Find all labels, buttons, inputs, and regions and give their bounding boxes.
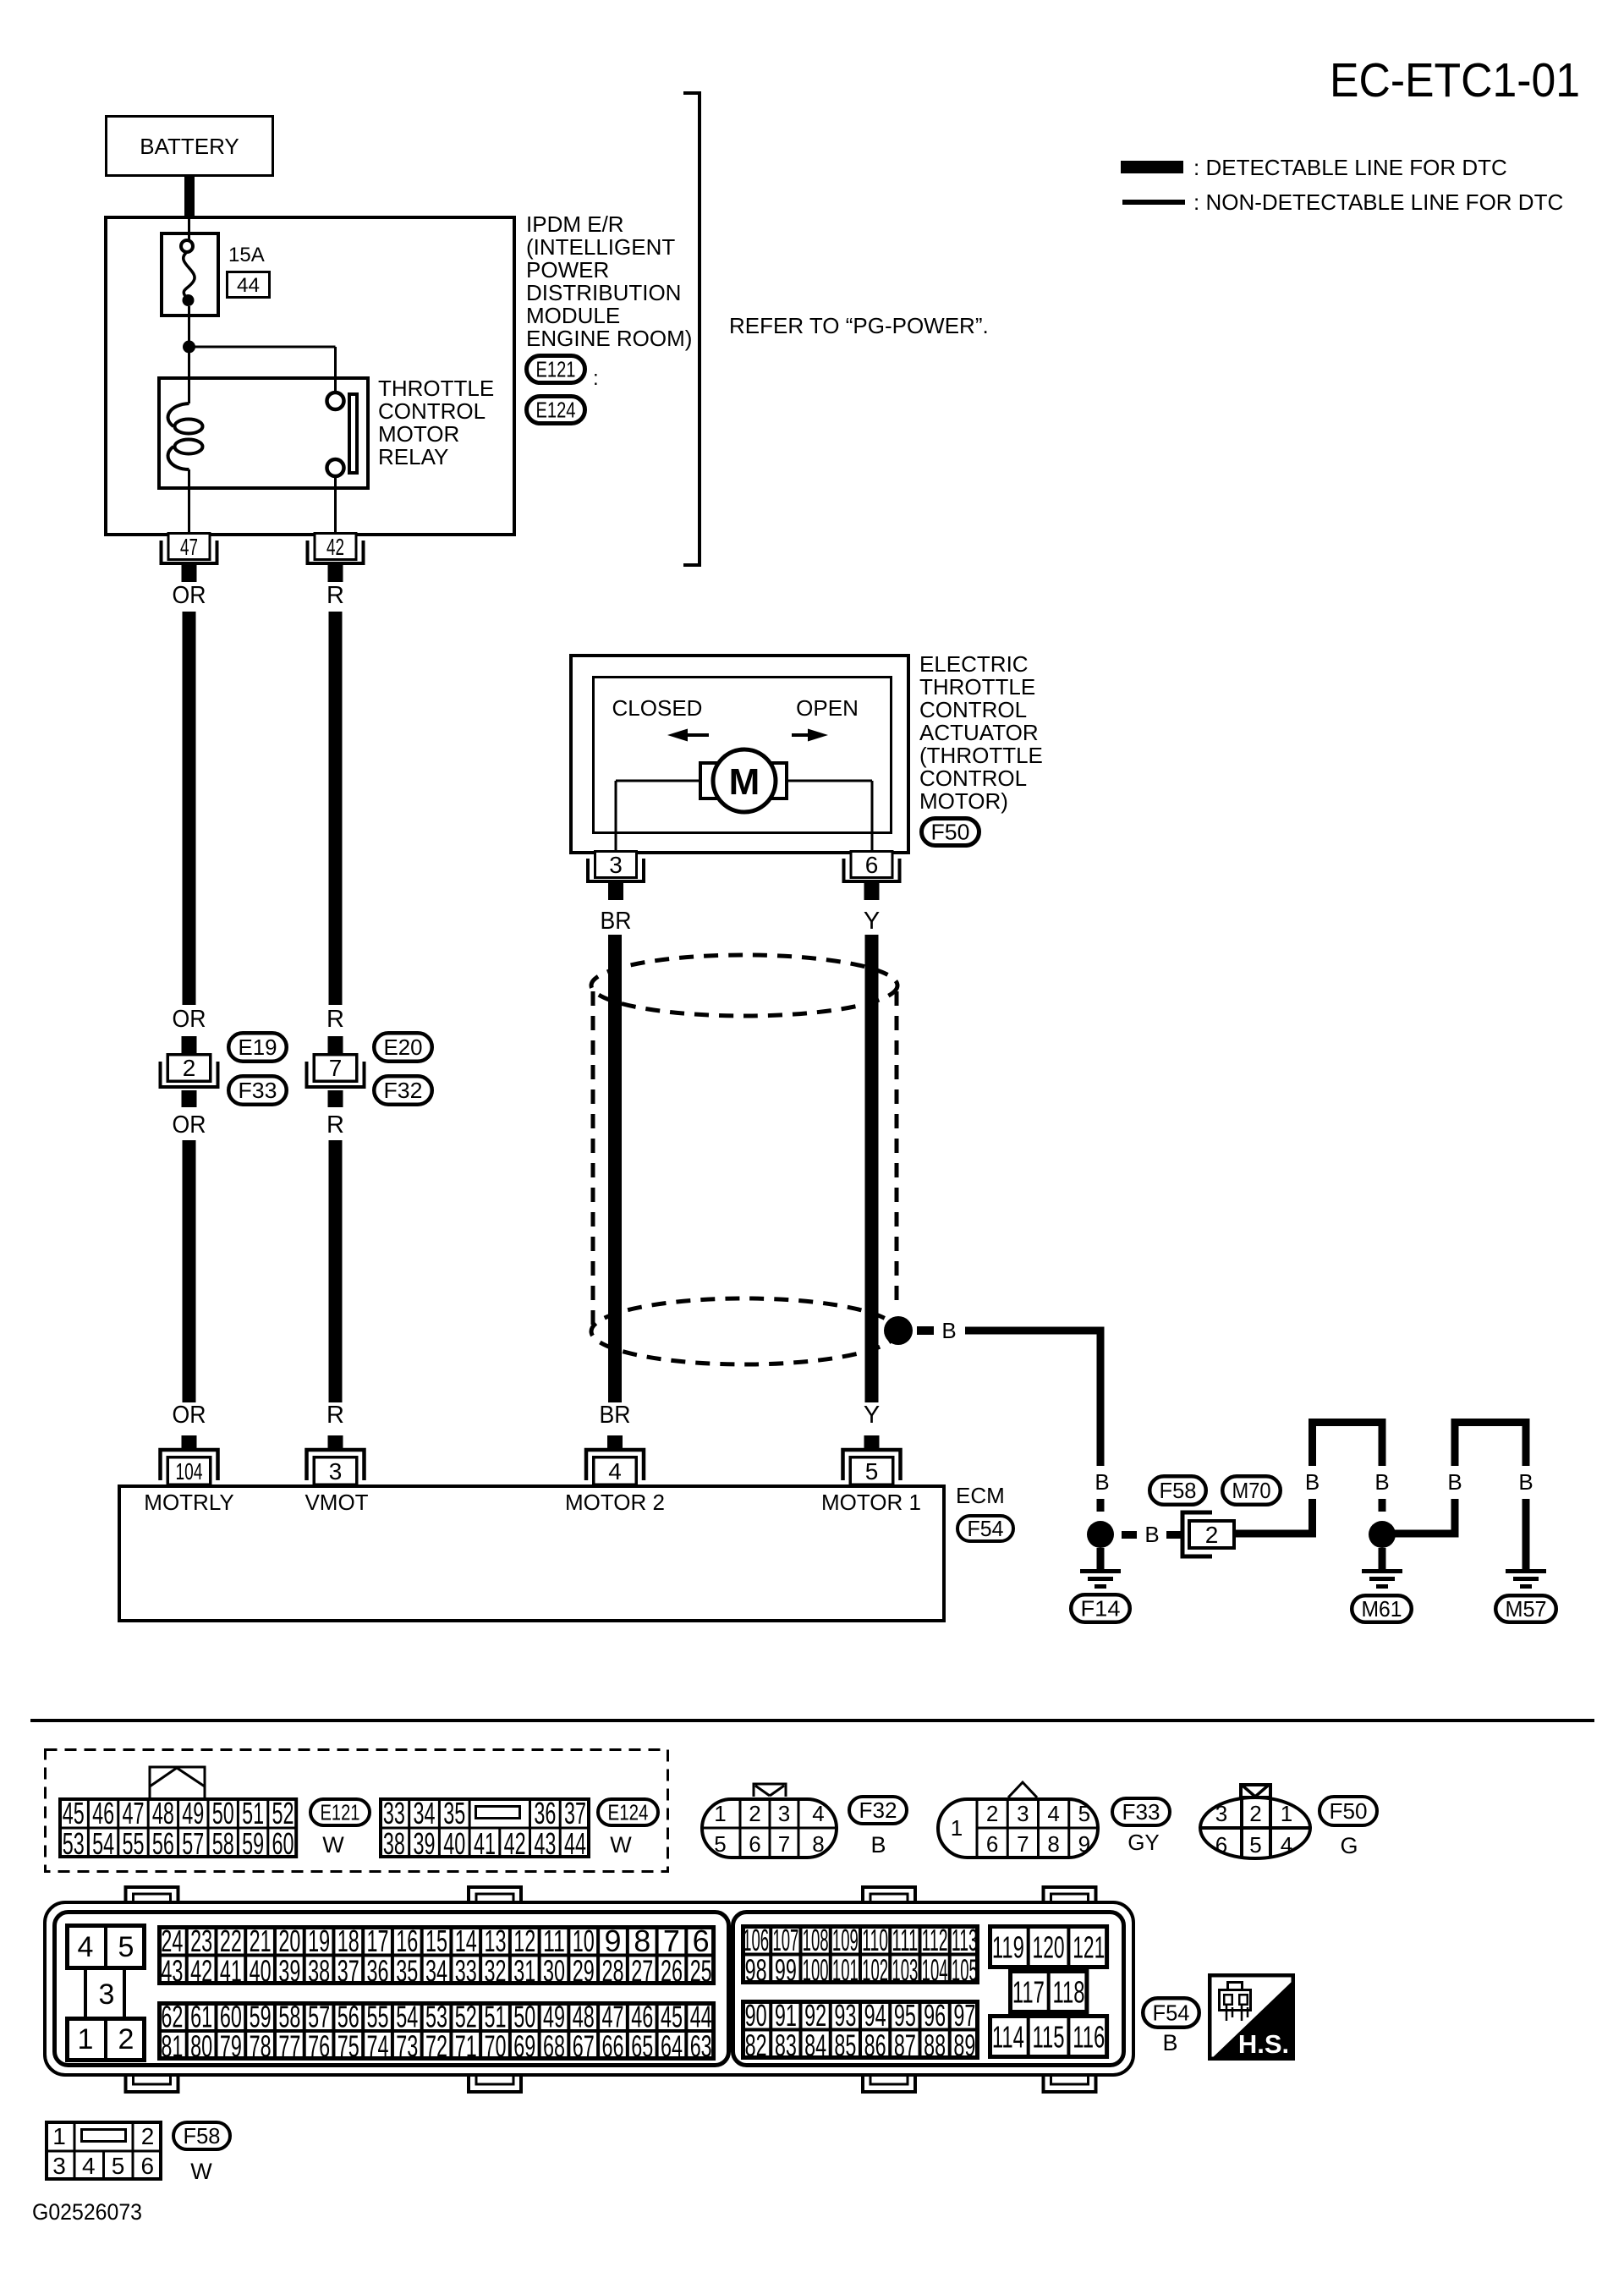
svg-text:F50: F50	[931, 820, 970, 845]
svg-text:44: 44	[564, 1826, 586, 1861]
svg-text:W: W	[322, 1832, 344, 1858]
svg-text:3: 3	[778, 1801, 790, 1826]
svg-text:R: R	[326, 1006, 344, 1033]
svg-text:63: 63	[690, 2029, 712, 2064]
svg-text:33: 33	[383, 1796, 405, 1830]
svg-text:F54: F54	[1153, 2000, 1190, 2026]
svg-text:26: 26	[661, 1953, 683, 1988]
svg-text:2: 2	[183, 1055, 196, 1081]
svg-text:44: 44	[237, 274, 260, 297]
svg-text:35: 35	[443, 1796, 465, 1830]
svg-text:85: 85	[834, 2028, 856, 2062]
svg-text:47: 47	[180, 534, 198, 560]
svg-text:83: 83	[775, 2028, 797, 2062]
svg-text:30: 30	[543, 1953, 565, 1988]
svg-text:74: 74	[367, 2029, 389, 2064]
svg-text:EC-ETC1-01: EC-ETC1-01	[1330, 53, 1580, 107]
svg-text:1: 1	[78, 2023, 94, 2055]
svg-text:8: 8	[1047, 1831, 1059, 1857]
svg-text:35: 35	[396, 1953, 418, 1988]
svg-text:MOTOR): MOTOR)	[919, 788, 1008, 814]
svg-text:M61: M61	[1362, 1596, 1402, 1622]
svg-text:81: 81	[161, 2029, 183, 2064]
svg-text:15A: 15A	[228, 244, 265, 266]
svg-text:37: 37	[337, 1953, 359, 1988]
svg-text:36: 36	[534, 1796, 556, 1830]
svg-text:E19: E19	[239, 1034, 277, 1060]
svg-text:2: 2	[1249, 1801, 1261, 1826]
svg-text:OR: OR	[173, 1402, 206, 1429]
svg-text:R: R	[326, 1111, 344, 1139]
svg-text:38: 38	[308, 1953, 330, 1988]
svg-text:7: 7	[1017, 1831, 1029, 1857]
svg-text:F58: F58	[184, 2123, 221, 2149]
svg-text:B: B	[1095, 1469, 1109, 1495]
svg-text:58: 58	[212, 1826, 234, 1861]
svg-text:OR: OR	[173, 582, 206, 609]
svg-text:55: 55	[123, 1826, 145, 1861]
svg-text:42: 42	[504, 1826, 526, 1861]
svg-text:ECM: ECM	[956, 1483, 1005, 1508]
svg-text:39: 39	[278, 1953, 300, 1988]
svg-text:38: 38	[383, 1826, 405, 1861]
svg-text:45: 45	[63, 1796, 85, 1830]
svg-text:78: 78	[250, 2029, 272, 2064]
svg-text:56: 56	[152, 1826, 174, 1861]
svg-text:2: 2	[141, 2123, 155, 2149]
svg-text:Y: Y	[864, 1402, 880, 1429]
svg-text:34: 34	[425, 1953, 447, 1988]
svg-text:8: 8	[812, 1831, 824, 1857]
svg-text:: DETECTABLE LINE FOR DTC: : DETECTABLE LINE FOR DTC	[1193, 155, 1507, 180]
svg-text:G: G	[1340, 1833, 1358, 1858]
svg-text:BR: BR	[601, 908, 632, 935]
svg-text:(THROTTLE: (THROTTLE	[919, 743, 1043, 768]
svg-text:CONTROL: CONTROL	[919, 697, 1027, 722]
svg-text:103: 103	[892, 1952, 918, 1987]
svg-text:66: 66	[601, 2029, 623, 2064]
svg-text:4: 4	[1281, 1832, 1292, 1858]
svg-text:89: 89	[953, 2028, 975, 2062]
svg-text:40: 40	[250, 1953, 272, 1988]
svg-text:6: 6	[1215, 1832, 1227, 1858]
svg-text:7: 7	[778, 1831, 790, 1857]
svg-text:102: 102	[862, 1952, 888, 1987]
svg-text:114: 114	[992, 2020, 1024, 2055]
svg-text:48: 48	[152, 1796, 174, 1830]
svg-text:5: 5	[1249, 1832, 1261, 1858]
svg-text:3: 3	[329, 1458, 343, 1484]
svg-text:117: 117	[1012, 1975, 1045, 2010]
svg-text:F50: F50	[1330, 1798, 1368, 1824]
svg-text:79: 79	[220, 2029, 242, 2064]
svg-text:1: 1	[951, 1815, 963, 1841]
svg-text:IPDM E/R: IPDM E/R	[526, 211, 624, 237]
svg-text:GY: GY	[1127, 1830, 1160, 1855]
svg-text:59: 59	[242, 1826, 264, 1861]
svg-text:116: 116	[1073, 2020, 1105, 2055]
svg-text:7: 7	[329, 1055, 343, 1081]
svg-text:6: 6	[986, 1831, 998, 1857]
svg-text:5: 5	[714, 1831, 726, 1857]
svg-text:F33: F33	[1122, 1799, 1160, 1825]
svg-text:41: 41	[220, 1953, 242, 1988]
svg-text:2: 2	[986, 1801, 998, 1826]
svg-text:50: 50	[212, 1796, 234, 1830]
svg-text:MOTOR 1: MOTOR 1	[821, 1490, 921, 1515]
svg-text:68: 68	[543, 2029, 565, 2064]
svg-text:1: 1	[52, 2123, 66, 2149]
svg-text:3: 3	[1215, 1801, 1227, 1826]
svg-text:5: 5	[865, 1458, 879, 1484]
svg-text:41: 41	[474, 1826, 496, 1861]
svg-text:B: B	[1162, 2030, 1177, 2055]
svg-text:B: B	[1447, 1469, 1462, 1495]
svg-text:64: 64	[661, 2029, 683, 2064]
svg-text:OR: OR	[173, 1006, 206, 1033]
svg-text:70: 70	[485, 2029, 507, 2064]
svg-text:OPEN: OPEN	[796, 695, 859, 721]
svg-text:57: 57	[182, 1826, 204, 1861]
svg-text:119: 119	[992, 1930, 1024, 1965]
svg-text:80: 80	[190, 2029, 212, 2064]
svg-text:F58: F58	[1160, 1478, 1197, 1503]
svg-text:ACTUATOR: ACTUATOR	[919, 720, 1039, 745]
svg-text:39: 39	[414, 1826, 436, 1861]
svg-text:101: 101	[832, 1952, 859, 1987]
svg-text:42: 42	[190, 1953, 212, 1988]
svg-text:71: 71	[455, 2029, 477, 2064]
svg-text:F32: F32	[859, 1797, 897, 1823]
svg-text:32: 32	[485, 1953, 507, 1988]
svg-text:6: 6	[140, 2153, 154, 2179]
svg-text:CLOSED: CLOSED	[612, 695, 703, 721]
svg-text:M57: M57	[1506, 1596, 1547, 1622]
svg-text:46: 46	[92, 1796, 114, 1830]
svg-text:115: 115	[1033, 2020, 1065, 2055]
svg-text:B: B	[1305, 1469, 1319, 1495]
svg-text:40: 40	[443, 1826, 465, 1861]
svg-text:MOTRLY: MOTRLY	[144, 1490, 233, 1515]
svg-text:37: 37	[564, 1796, 586, 1830]
svg-text:4: 4	[82, 2153, 96, 2179]
svg-text:M: M	[729, 761, 760, 803]
svg-text:1: 1	[714, 1801, 726, 1826]
svg-text:4: 4	[812, 1801, 824, 1826]
svg-text:29: 29	[573, 1953, 595, 1988]
svg-text:53: 53	[63, 1826, 85, 1861]
svg-text:118: 118	[1053, 1975, 1085, 2010]
svg-text:E121: E121	[536, 357, 576, 382]
svg-text:72: 72	[425, 2029, 447, 2064]
svg-text:121: 121	[1073, 1930, 1105, 1965]
svg-text:51: 51	[242, 1796, 264, 1830]
svg-text:E20: E20	[384, 1034, 423, 1060]
svg-text:4: 4	[1047, 1801, 1059, 1826]
svg-text:69: 69	[513, 2029, 535, 2064]
svg-text:42: 42	[326, 534, 344, 560]
svg-text:F54: F54	[968, 1516, 1004, 1541]
svg-text:75: 75	[337, 2029, 359, 2064]
svg-text:67: 67	[573, 2029, 595, 2064]
svg-text:Y: Y	[864, 908, 880, 935]
svg-text:F33: F33	[239, 1078, 277, 1103]
svg-text:4: 4	[608, 1458, 622, 1484]
svg-text:87: 87	[894, 2028, 916, 2062]
svg-text:E124: E124	[536, 398, 576, 423]
svg-text:B: B	[1144, 1522, 1159, 1547]
svg-text:1: 1	[1281, 1801, 1292, 1826]
svg-text:M70: M70	[1232, 1478, 1271, 1503]
svg-text:77: 77	[278, 2029, 300, 2064]
svg-text:25: 25	[690, 1953, 712, 1988]
svg-text:43: 43	[161, 1953, 183, 1988]
svg-text:100: 100	[803, 1952, 829, 1987]
svg-text:84: 84	[804, 2028, 826, 2062]
svg-text:R: R	[326, 1402, 344, 1429]
svg-text:5: 5	[1078, 1801, 1090, 1826]
svg-text:47: 47	[123, 1796, 145, 1830]
svg-text:99: 99	[775, 1952, 797, 1987]
svg-text:BR: BR	[600, 1402, 631, 1429]
svg-text:B: B	[941, 1318, 956, 1343]
svg-text:49: 49	[182, 1796, 204, 1830]
svg-text:POWER: POWER	[526, 257, 609, 283]
svg-text:MODULE: MODULE	[526, 303, 620, 328]
svg-text:VMOT: VMOT	[304, 1490, 368, 1515]
svg-text:27: 27	[631, 1953, 653, 1988]
svg-text:B: B	[1374, 1469, 1389, 1495]
svg-text:98: 98	[745, 1952, 767, 1987]
svg-text:R: R	[326, 582, 344, 609]
svg-text:73: 73	[396, 2029, 418, 2064]
svg-text:2: 2	[749, 1801, 760, 1826]
svg-text:88: 88	[924, 2028, 946, 2062]
svg-text:6: 6	[865, 852, 879, 878]
svg-text:65: 65	[631, 2029, 653, 2064]
svg-text:ELECTRIC: ELECTRIC	[919, 651, 1029, 677]
svg-text:60: 60	[272, 1826, 294, 1861]
svg-text:W: W	[190, 2159, 212, 2184]
svg-text:MOTOR: MOTOR	[378, 421, 459, 447]
svg-text:43: 43	[534, 1826, 556, 1861]
svg-text:THROTTLE: THROTTLE	[378, 376, 494, 401]
svg-text:52: 52	[272, 1796, 294, 1830]
svg-text:54: 54	[92, 1826, 114, 1861]
svg-text:9: 9	[1078, 1831, 1090, 1857]
svg-text:3: 3	[609, 852, 623, 878]
svg-text:E121: E121	[321, 1800, 360, 1825]
svg-text:H.S.: H.S.	[1238, 2029, 1289, 2059]
svg-text:DISTRIBUTION: DISTRIBUTION	[526, 280, 681, 305]
svg-text:E124: E124	[608, 1800, 649, 1825]
svg-text:B: B	[1518, 1469, 1533, 1495]
svg-text:28: 28	[601, 1953, 623, 1988]
svg-text:3: 3	[52, 2153, 66, 2179]
svg-text:B: B	[870, 1832, 886, 1858]
svg-text:BATTERY: BATTERY	[140, 134, 239, 159]
svg-text:4: 4	[78, 1931, 94, 1963]
svg-text::: :	[593, 367, 599, 390]
svg-text:2: 2	[1205, 1522, 1219, 1548]
svg-text:3: 3	[1017, 1801, 1029, 1826]
svg-text:105: 105	[952, 1952, 978, 1987]
svg-text:5: 5	[118, 1931, 134, 1963]
svg-text:5: 5	[112, 2153, 125, 2179]
svg-text:33: 33	[455, 1953, 477, 1988]
svg-text:3: 3	[99, 1978, 115, 2011]
svg-text:2: 2	[118, 2023, 134, 2055]
svg-text:86: 86	[864, 2028, 886, 2062]
svg-text:G02526073: G02526073	[32, 2199, 142, 2225]
svg-text:CONTROL: CONTROL	[919, 766, 1027, 791]
svg-text:6: 6	[749, 1831, 760, 1857]
svg-text:31: 31	[513, 1953, 535, 1988]
svg-text:34: 34	[414, 1796, 436, 1830]
svg-text:: NON-DETECTABLE LINE FOR DTC: : NON-DETECTABLE LINE FOR DTC	[1193, 189, 1563, 215]
svg-text:THROTTLE: THROTTLE	[919, 674, 1035, 700]
svg-text:REFER TO “PG-POWER”.: REFER TO “PG-POWER”.	[729, 313, 989, 338]
svg-text:104: 104	[922, 1952, 948, 1987]
svg-text:120: 120	[1033, 1930, 1065, 1965]
svg-text:36: 36	[367, 1953, 389, 1988]
svg-text:MOTOR 2: MOTOR 2	[565, 1490, 665, 1515]
svg-text:W: W	[610, 1832, 632, 1858]
svg-text:F14: F14	[1081, 1596, 1121, 1622]
svg-text:82: 82	[745, 2028, 767, 2062]
svg-text:OR: OR	[173, 1111, 206, 1139]
svg-text:ENGINE ROOM): ENGINE ROOM)	[526, 326, 692, 351]
svg-text:76: 76	[308, 2029, 330, 2064]
svg-text:(INTELLIGENT: (INTELLIGENT	[526, 234, 675, 260]
svg-text:104: 104	[176, 1458, 203, 1484]
svg-text:CONTROL: CONTROL	[378, 398, 486, 424]
svg-text:F32: F32	[384, 1078, 423, 1103]
svg-text:RELAY: RELAY	[378, 444, 448, 469]
